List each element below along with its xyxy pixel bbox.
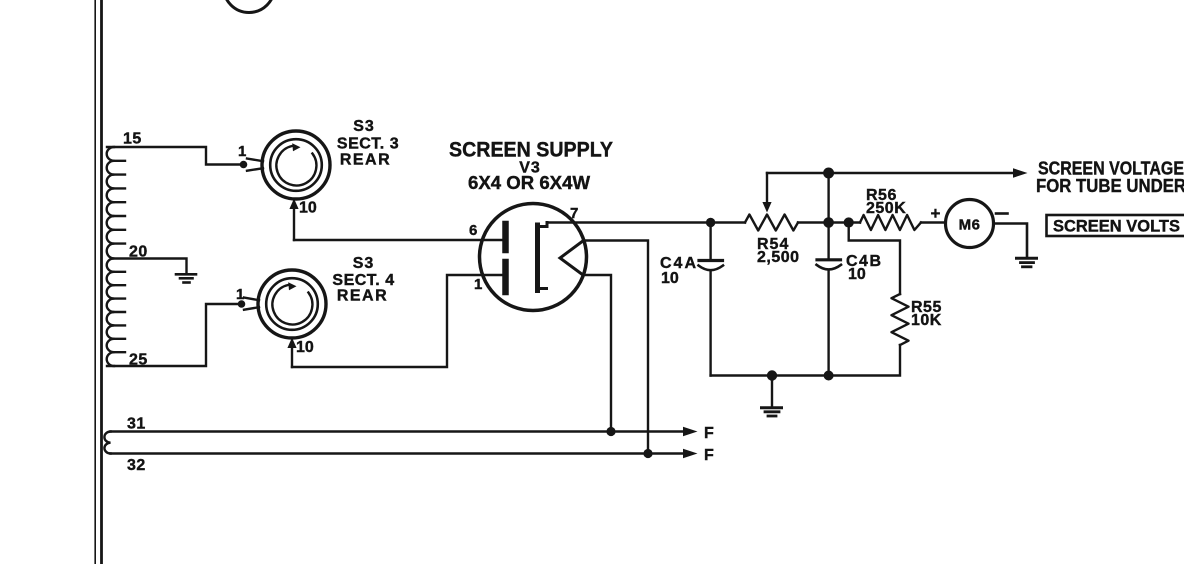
V3 plates [502,224,509,250]
svg-text:10: 10 [299,200,317,217]
svg-text:6: 6 [469,222,477,239]
capacitor C4A [699,223,724,376]
svg-text:7: 7 [570,205,578,222]
wire B+ bus (V3 pin7 to R54) [547,221,745,223]
switch S3 SECT.3 REAR body [247,131,330,199]
node 10 (S3.3) contact arrow [293,206,295,240]
junction dot ground rail [767,370,777,380]
junction dot C4B bottom [824,371,834,381]
svg-text:1: 1 [236,286,244,303]
svg-text:1: 1 [474,276,482,293]
wire wiper junction down to bus [827,173,829,259]
wire R56 to meter M6 [921,221,946,223]
wire R55 to bottom rail [711,345,900,376]
ground (filter rail) [762,376,782,417]
junction dot on F line 32 [643,449,652,458]
wire S3.3 pin10 to V3 pin6 [294,239,503,241]
svg-text:10: 10 [661,270,679,287]
svg-text:SCREEN SUPPLY: SCREEN SUPPLY [449,138,613,162]
svg-text:FOR TUBE UNDER: FOR TUBE UNDER [1036,175,1184,196]
svg-text:+: + [931,204,941,223]
minus label [996,212,1008,215]
transformer T1 winding (taps 15-25) [107,147,125,366]
svg-text:1: 1 [238,143,246,160]
svg-text:SECT. 3: SECT. 3 [337,136,399,153]
wire V3 filament bottom to F line 31 [583,275,611,432]
meter M6 [946,200,994,248]
SCREEN VOLTS box [1047,215,1184,236]
junction dot bus/C4B [823,217,834,228]
svg-text:10K: 10K [911,312,942,329]
svg-text:6X4 OR 6X4W: 6X4 OR 6X4W [468,173,590,193]
R54 wiper arrow [766,173,768,204]
wire bus R54 to R56 [798,221,860,223]
svg-text:REAR: REAR [340,152,391,169]
junction dot on F line 31 [606,427,615,436]
junction node C4A [706,218,715,227]
svg-text:10: 10 [296,339,314,356]
svg-text:REAR: REAR [337,288,388,305]
wire R54 wiper to screen voltage output [767,172,1019,174]
screen voltage output arrow [1013,168,1028,178]
resistor R55 10K [892,294,909,345]
junction dot R55 branch [844,217,854,227]
V3 cathode [538,223,548,291]
svg-text:S3: S3 [353,255,375,272]
wire R55 branch [849,223,900,295]
resistor R54 (rheostat 2,500) [745,215,798,231]
node 1 (S3.3) [240,161,248,169]
svg-text:2,500: 2,500 [757,249,800,266]
wire F line 31 [111,430,684,433]
node 1 (S3.4) [238,300,246,308]
svg-text:F: F [704,425,714,442]
transformer T1 core lines [95,0,101,564]
wire M6 to ground [994,224,1028,257]
tube V3 envelope [480,204,587,311]
wire S3.4 pin10 to V3 pin1 [292,275,503,367]
wire V3 filament top to F line 32 [584,241,648,454]
svg-text:31: 31 [127,416,146,433]
svg-text:10: 10 [848,266,866,283]
wire tap 25 to S3 sect.4 [107,304,238,366]
ground (M6) [1017,258,1037,267]
wire F line 32 [111,452,684,455]
V3 filament [560,241,584,276]
wire tap 15 to S3 sect.3 [107,147,240,165]
switch S3 SECT.4 REAR body [244,270,326,338]
svg-text:M6: M6 [959,217,981,234]
svg-text:SCREEN VOLTS: SCREEN VOLTS [1053,218,1180,236]
transformer T1 winding (taps 31-32) [104,432,110,454]
svg-text:15: 15 [123,131,142,148]
node 10 (S3.4) contact arrow [291,345,293,367]
svg-text:250K: 250K [866,200,906,217]
rotor arrow S3.3 [292,143,300,151]
rotor arrow S3.4 [288,282,296,290]
switch S3 section 2 (partial at top edge) [224,0,275,13]
svg-text:F: F [704,447,714,464]
junction node wiper/C4B [823,168,834,179]
resistor R56 250K [860,215,921,230]
svg-text:S3: S3 [353,118,375,135]
svg-text:SECT. 4: SECT. 4 [332,272,394,289]
svg-text:32: 32 [127,457,146,474]
wire tap 20 to ground [112,259,187,273]
capacitor C4B [817,260,842,376]
ground (tap 20) [176,274,196,282]
